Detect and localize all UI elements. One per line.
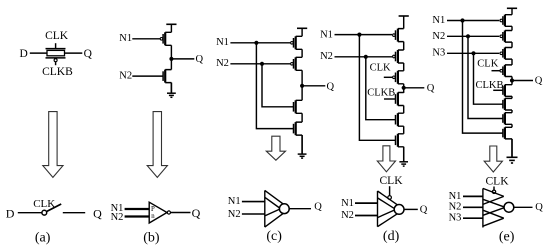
svg-text:Q: Q [196,54,204,65]
transistor NMOS M2 (b) [163,70,171,83]
wire N1 input (d symbol) [355,202,378,204]
wire source to ground (c) [301,135,303,154]
ground (d) [399,147,408,166]
wire Q (c symbol) [289,208,311,210]
wire rail M6-M7 (e) [511,110,513,113]
wire rail M5-M6 (d) [403,126,405,134]
ground (b) [167,83,176,98]
wire N1 (e) [447,20,499,22]
wire rail M2-M3 (e) [511,42,513,47]
gate U3 inner chevron (d) [378,198,396,218]
svg-text:Q: Q [93,206,102,220]
gate U4 output circle (e) [504,202,514,212]
svg-text:N1: N1 [341,198,354,209]
svg-text:Q: Q [327,81,335,92]
wire source to ground (d) [403,147,405,162]
arrow (b) [147,112,167,178]
power VDD (d) [399,15,409,17]
wire source to ground (e) [511,139,513,157]
wire rail M1-M2 (e) [511,26,513,30]
wire Q (d symbol) [404,208,418,210]
gate U2 output circle (c) [279,204,289,214]
transistor PMOS M2 (e) [500,31,512,43]
wire VDD stub (d) [403,16,405,29]
svg-text:N2: N2 [216,58,229,69]
wire CLKB to NMOS M4 gate (d) [384,98,396,100]
node N1 junction (c) [254,41,258,45]
wire CLK to PMOS M4 gate (e) [492,70,501,72]
svg-text:CLK: CLK [370,63,391,74]
arrow (d) [377,146,395,172]
transmission-gate top gate stub [55,43,57,48]
wire Q (d) [404,87,425,89]
wire N1 vertical to NMOS M4 gate (c) [256,43,293,129]
node N2 junction (c) [260,62,264,66]
arrow (e) [484,146,502,172]
wire N2 vertical to NMOS M5 gate (d) [366,57,396,120]
transistor PMOS M2 (d) [393,50,404,63]
transistor NMOS M4 (d) [396,93,404,106]
ground (e) [507,139,518,163]
node Q junction (c) [300,84,304,88]
svg-text:N1: N1 [432,15,445,26]
transistor NMOS M6 (e) [503,98,512,110]
svg-text:CLK: CLK [486,175,510,187]
wire D to switch [18,212,42,214]
transistor PMOS M1 (d) [393,29,404,42]
svg-text:N3: N3 [432,48,445,59]
wire rail to node Q (c) [301,70,303,100]
wire N1 to PMOS gate (b) [132,38,160,40]
svg-text:Q: Q [192,206,201,220]
svg-text:N1: N1 [320,29,333,40]
transistor NMOS M6 (d) [396,134,404,147]
transmission-gate body [47,50,65,55]
transistor PMOS M3 (d) [393,71,404,84]
wire Q (e symbol) [514,206,533,208]
svg-text:N1: N1 [228,196,241,207]
transistor NMOS M5 (e) [503,85,512,97]
wire VDD to source (b) [170,24,172,32]
wire rail M3-M4 (c) [301,113,303,122]
wire CLK stub (d symbol) [389,186,391,195]
wire N1 vertical to NMOS M8 gate (e) [463,21,503,134]
transistor NMOS M5 (d) [396,113,404,126]
node Q junction (d) [402,86,406,90]
svg-text:N2: N2 [228,209,241,220]
svg-text:(e): (e) [499,229,515,244]
svg-text:(a): (a) [35,230,51,245]
transistor PMOS M1 (c) [291,36,303,49]
gate U1 output bubble [167,211,170,214]
svg-text:Q: Q [84,48,93,60]
wire N3 vertical to NMOS M6 gate (e) [474,53,503,104]
gate U4 clock bubble (e) [492,190,495,193]
wire Q (c) [302,85,325,87]
wire source to ground (b) [170,83,172,93]
wire N2 input (c symbol) [242,213,265,215]
transmission-gate bottom bubble [54,59,57,62]
svg-text:CLK: CLK [380,175,404,187]
power VDD (c) [297,27,307,29]
transistor PMOS M2 (c) [291,57,303,70]
svg-text:Q: Q [535,76,543,87]
wire N2 input (b symbol) [125,215,150,217]
transmission-gate bottom gate stub [55,62,57,65]
svg-text:CLK: CLK [477,59,498,70]
wire Q (b symbol) [171,212,191,214]
wire rail M4-M5 (d) [403,106,405,114]
transmission-gate bottom gate bar [46,57,66,59]
gate U1 triangle (b) [149,202,167,223]
gate U3 outer triangle (d) [378,191,405,227]
wire N1 input (b symbol) [125,208,150,210]
wire N2 vertical to NMOS M7 gate (e) [468,36,503,118]
svg-text:P: P [151,206,155,213]
node D wire [30,52,47,54]
svg-text:Q: Q [535,202,543,213]
node Q wire (a) [65,52,83,54]
arrow (c) [266,136,285,160]
svg-text:Q: Q [427,83,435,94]
wire switch to Q [63,212,85,214]
svg-text:Q: Q [314,201,322,212]
svg-text:CLKB: CLKB [367,88,395,99]
svg-text:(b): (b) [143,230,160,245]
wire Q (b) [171,58,194,60]
gate U2 left edge (c) [264,190,266,227]
gate U3 left edge (d) [377,191,379,227]
svg-text:N1: N1 [449,191,462,202]
svg-text:N1: N1 [216,37,229,48]
wire N2 to NMOS gate (b) [132,75,163,77]
gate U4 triangle 2 (e) [483,199,505,215]
node N1 junction (d) [357,33,361,37]
node N3 junction (e) [471,51,475,55]
wire N2 (d) [335,56,393,58]
svg-text:CLKB: CLKB [42,66,73,78]
wire rail to node Q (e) [511,77,513,85]
wire CLK to PMOS M3 gate (d) [384,76,393,78]
wire N1 (d) [335,34,393,36]
svg-text:N3: N3 [449,213,462,224]
node N2 junction (d) [364,55,368,59]
wire rail M7-M8 (e) [511,124,513,127]
gate U4 triangle 3 (e) [483,210,504,226]
wire rail M5-M6 (e) [511,96,513,98]
svg-text:N2: N2 [449,202,462,213]
svg-text:D: D [20,48,28,60]
transistor NMOS M8 (e) [503,127,512,139]
wire N2 input (e symbol) [463,206,483,208]
gate U4 triangle 1 (e) [483,188,504,204]
transistor PMOS M1 (b) [160,32,171,45]
svg-text:N2: N2 [111,212,124,223]
svg-text:N2: N2 [320,51,333,62]
wire rail to node Q (d) [403,84,405,93]
wire CLK stub (e symbol) [493,187,495,191]
svg-text:N1: N1 [119,33,132,44]
wire N1 input (c symbol) [242,201,265,203]
power VDD (e) [507,7,517,9]
svg-text:(d): (d) [383,229,400,244]
wire N2 (e) [447,35,499,37]
gate U3 output circle (d) [394,205,404,215]
gate U2 inner chevron (c) [265,197,281,216]
wire VDD stub (c) [301,28,303,36]
wire N2 input (d symbol) [355,215,378,217]
wire rail M2-M3 (d) [403,63,405,71]
wire N1 vertical to NMOS M6 gate (d) [359,35,395,141]
transistor PMOS M1 (e) [500,15,512,27]
svg-text:N2: N2 [432,31,445,42]
wire drain rail (b) [170,45,172,69]
ground (c) [298,135,307,158]
switch pivot [42,210,47,215]
svg-text:CLK: CLK [45,30,69,42]
wire N1 (c) [230,42,290,44]
transistor PMOS M4 (e) [500,65,512,77]
wire rail M3-M4 (e) [511,59,513,65]
svg-text:n: n [151,213,155,220]
node N1 junction (e) [460,18,464,22]
switch blade [47,204,62,212]
wire N3 input (e symbol) [463,217,483,219]
gate U2 outer triangle (c) [265,190,290,227]
transistor PMOS M3 (e) [500,48,512,60]
power VDD (b) [166,23,176,25]
wire VDD stub (e) [511,8,513,14]
wire N1 input (e symbol) [463,195,483,197]
transmission-gate top gate bar [46,48,66,50]
svg-text:N2: N2 [119,70,132,81]
wire rail M1-M2 (d) [403,42,405,50]
transistor NMOS M3 (c) [294,100,303,113]
arrow (a) [43,112,63,178]
wire N2 vertical to NMOS M3 gate (c) [262,64,294,107]
svg-text:N2: N2 [341,210,354,221]
svg-text:CLKB: CLKB [475,80,503,91]
wire rail M1-M2 (c) [301,49,303,57]
transistor NMOS M4 (c) [294,122,303,135]
svg-text:D: D [6,206,15,220]
wire N3 (e) [447,52,499,54]
node N2 junction (e) [466,34,470,38]
svg-text:(c): (c) [266,229,282,244]
gate U3 clock bubble (d) [388,196,392,200]
wire N2 (c) [230,63,290,65]
gate U4 left edge (e) [482,188,484,227]
transistor NMOS M7 (e) [503,113,512,125]
svg-text:Q: Q [420,205,428,216]
wire Q (e) [512,80,533,82]
node Q junction (e) [510,78,514,82]
node Q junction (b) [169,57,173,61]
wire CLKB to NMOS M5 gate (e) [493,89,503,91]
